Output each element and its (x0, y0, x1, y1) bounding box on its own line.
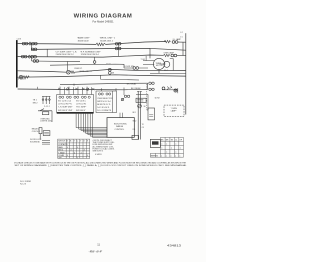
svg-text:T. BAKE: T. BAKE (58, 151, 65, 154)
interlock switch S2 (138, 104, 142, 108)
svg-text:BR. RELAY: BR. RELAY (127, 82, 137, 85)
stub wire with plug P9 (124, 67, 133, 69)
svg-text:SWITCH: SWITCH (58, 141, 65, 143)
svg-text:x: x (175, 152, 176, 154)
junction tick on row G left (36, 87, 38, 89)
oven lamp dashed box (164, 105, 184, 116)
svg-text:x: x (171, 148, 172, 150)
plug pair K3 feed (123, 88, 125, 96)
svg-text:4: 4 (67, 147, 68, 149)
svg-text:SURF. IND. LT.: SURF. IND. LT. (80, 71, 93, 73)
junction diamond row A (28, 42, 31, 45)
svg-text:VOLTAGE CHECKS TO BE MADE WITH: VOLTAGE CHECKS TO BE MADE WITH CONTROLS … (14, 161, 187, 164)
vertical riser x118 (118, 44, 120, 57)
svg-text:L1 B: L1 B (17, 38, 22, 40)
svg-text:BK 1: BK 1 (133, 112, 137, 114)
svg-text:B: B (70, 141, 72, 143)
svg-text:N.O 1-2 N.C 3-4: N.O 1-2 N.C 3-4 (58, 100, 71, 102)
svg-text:30: 30 (144, 106, 146, 108)
grid cell marks (151, 140, 183, 158)
timer bottom stem (158, 70, 160, 74)
notes text block right of control (93, 140, 115, 156)
svg-text:SEE NOTE 3: SEE NOTE 3 (93, 151, 104, 153)
svg-text:3000W 240V.: 3000W 240V. (78, 40, 90, 42)
svg-text:8" 2400W: 8" 2400W (18, 79, 26, 81)
element R5 zigzag right row2 (163, 54, 169, 56)
svg-text:x: x (161, 144, 162, 146)
SW1 text row2 (58, 100, 87, 111)
svg-text:1250W 240V. SW 3-4: 1250W 240V. SW 3-4 (81, 54, 99, 56)
timer escapement link (170, 59, 173, 71)
svg-text:CONTROL: CONTROL (115, 129, 126, 131)
svg-text:O: O (83, 141, 85, 143)
svg-text:TD 8: TD 8 (106, 63, 110, 65)
svg-text:4: 4 (74, 152, 75, 154)
timer stem top (149, 48, 151, 58)
svg-text:x: x (166, 155, 167, 157)
latch riser (177, 88, 179, 93)
svg-text:OV: OV (142, 127, 145, 129)
svg-text:MOTOR: MOTOR (156, 65, 163, 67)
plug P10 right row1 (172, 41, 175, 44)
svg-text:-R8 -8-F: -R8 -8-F (89, 249, 103, 253)
svg-text:2 4 1 C: 2 4 1 C (44, 106, 51, 108)
surface element R2 zigzag row F (23, 76, 29, 78)
svg-text:SOLENOID: SOLENOID (30, 142, 40, 144)
switch function chart table (58, 139, 90, 158)
pilot lamp DS1 left on row F (19, 75, 23, 79)
relay contacts K2 (149, 88, 151, 90)
oven door label box (150, 139, 160, 147)
feeder wire labels (133, 112, 145, 131)
svg-text:RANGE: RANGE (116, 125, 124, 128)
wire row E (18, 71, 67, 72)
plug P3 on row A mid (115, 43, 118, 46)
svg-text:6 34813: 6 34813 (95, 154, 102, 156)
vertical wire C to D (31, 57, 33, 61)
svg-text:x: x (175, 144, 176, 146)
svg-text:L1 H1 L2 H2 P N: L1 H1 L2 H2 P N (58, 103, 72, 105)
svg-text:S: S (87, 141, 89, 143)
svg-text:R 6: R 6 (133, 129, 136, 131)
svg-text:DOOR SW.: DOOR SW. (125, 66, 135, 68)
wire stub y79 (101, 75, 140, 80)
svg-text:CL: CL (175, 140, 177, 142)
svg-text:60 HZ: 60 HZ (155, 98, 161, 100)
svg-text:4: 4 (84, 150, 85, 152)
svg-text:T: T (74, 141, 75, 143)
right border wire (185, 33, 187, 114)
power bus bar L1 (16, 40, 18, 87)
svg-text:x: x (175, 155, 176, 157)
svg-text:WIRING DIAGRAM: WIRING DIAGRAM (74, 14, 133, 20)
svg-text:SW 240V 6": SW 240V 6" (76, 110, 86, 112)
component X1 left-bottom switch (38, 109, 52, 111)
vertical feeders to oven table (137, 92, 142, 140)
vertical riser x94.6 (94, 57, 96, 61)
svg-text:BROIL: BROIL (58, 150, 63, 152)
relay contacts K1 (149, 82, 151, 84)
wires into lamp box (147, 109, 148, 111)
svg-text:1 0: 1 0 (180, 36, 182, 38)
wire row A (top supply line) (18, 43, 96, 46)
connector marks right of T1 (42, 141, 50, 144)
plug P4 on row B (31, 48, 34, 51)
svg-text:SWITCH 1-2 3-4: SWITCH 1-2 3-4 (97, 101, 110, 103)
svg-text:68: 68 (112, 73, 114, 75)
row B extension to border (150, 48, 186, 50)
SW2 text rows (97, 98, 113, 112)
svg-text:x: x (166, 152, 167, 154)
svg-text:LAMP": LAMP" (171, 110, 177, 113)
SW1 contact pairs row1 (59, 96, 90, 98)
element R3 zigzag mid row E (70, 71, 75, 74)
svg-text:x: x (161, 155, 162, 157)
svg-text:CONTACTS: CONTACTS (58, 143, 68, 146)
wire row B (31, 48, 150, 49)
wire row X right (150, 72, 186, 74)
svg-text:434813: 434813 (167, 243, 181, 247)
svg-text:N.C. B: N.C. B (20, 183, 27, 185)
pilot lamp DS2 mid (66, 70, 70, 74)
bus contact symbols on row G (58, 88, 94, 91)
dashed link timer (146, 84, 148, 110)
wire row G right stub (124, 88, 148, 90)
svg-text:4: 4 (71, 150, 72, 152)
svg-text:REFRIG: REFRIG (151, 155, 159, 157)
wire row H relay feed (60, 83, 148, 85)
wire row F (18, 75, 186, 77)
wire row D2 (50, 64, 124, 68)
svg-text:LIGHTS 115V: LIGHTS 115V (40, 120, 52, 122)
electronic range control U1 (107, 118, 134, 138)
surface switch bank SW1 box (57, 95, 94, 113)
plug P7 row C (31, 55, 34, 58)
wire row D (32, 60, 81, 63)
latch plunger symbol (174, 89, 177, 92)
junction tick on row H (73, 84, 75, 86)
svg-text:"R.R. SURF": "R.R. SURF" (76, 107, 87, 109)
lamp contacts vertical pair (108, 68, 111, 71)
SW2 top stubs (102, 88, 117, 112)
svg-text:OVEN SELECTOR: OVEN SELECTOR (97, 98, 113, 100)
plug P1 on row A (22, 42, 25, 45)
svg-text:ELECTRONIC: ELECTRONIC (114, 123, 127, 125)
svg-text:BK BR TB CL TL: BK BR TB CL TL (97, 104, 110, 106)
plug P2 on row A (32, 42, 35, 45)
svg-text:DOOR LOCK: DOOR LOCK (30, 139, 42, 141)
broil element R4 zigzag right row1 (164, 40, 170, 42)
latch arrow contacts (167, 86, 172, 90)
svg-text:2100W 240V. SW 1-2: 2100W 240V. SW 1-2 (56, 54, 74, 56)
vertical riser x147.7 (147, 83, 149, 89)
oven switch chart grid (150, 137, 183, 157)
door latch switch S5 (162, 87, 165, 90)
svg-text:4: 4 (87, 155, 88, 157)
door switch box S3 (136, 98, 146, 102)
vertical wire A to B (30, 44, 32, 50)
svg-text:B: B (67, 141, 69, 143)
svg-text:3600W 240V. 2: 3600W 240V. 2 (100, 40, 113, 42)
door latch wire (162, 89, 178, 91)
svg-text:L2: L2 (181, 32, 184, 34)
svg-text:60c 1: 60c 1 (164, 70, 168, 72)
timer entry wires (143, 56, 166, 65)
selector switch ticks on bus (60, 87, 92, 95)
wire row C (18, 55, 164, 57)
svg-text:TE 1: TE 1 (33, 100, 38, 102)
svg-text:SW 240V 8" UNIT: SW 240V 8" UNIT (58, 110, 73, 112)
svg-text:x: x (161, 148, 162, 150)
svg-text:4: 4 (67, 155, 68, 157)
svg-text:x: x (179, 155, 180, 157)
plug P6 row C (21, 55, 24, 58)
svg-text:4: 4 (77, 147, 78, 149)
svg-text:OFF: OFF (58, 157, 61, 159)
oven selector switch SW2 box (96, 91, 117, 113)
svg-text:OVEN LT.: OVEN LT. (74, 68, 83, 70)
vertical wire D to E cluster (67, 62, 69, 71)
SW1 bottom edge (57, 112, 94, 114)
plug P5 on row B mid (115, 47, 118, 50)
svg-text:11: 11 (97, 243, 100, 247)
plug P8 on row D (33, 60, 36, 63)
svg-text:C: C (77, 141, 79, 143)
svg-text:SW 2: SW 2 (33, 103, 39, 105)
plug pair P12 (124, 95, 126, 97)
svg-text:FL. LAMP: FL. LAMP (173, 38, 182, 41)
vertical wire B to C (46, 49, 48, 56)
vertical wire x183 (182, 42, 184, 55)
svg-text:5-6 7-8 9-10 11: 5-6 7-8 9-10 11 (97, 107, 109, 109)
svg-text:TO: TO (142, 124, 145, 126)
svg-text:T1 M: T1 M (141, 59, 146, 61)
SW2 contact pairs (98, 93, 110, 95)
svg-text:"BAKE UNIT": "BAKE UNIT" (77, 37, 90, 40)
timer motor M1 outer (153, 58, 164, 69)
plug S4 on riser (93, 61, 96, 64)
svg-text:"L.R. SURF UNIT": "L.R. SURF UNIT" (58, 107, 73, 109)
svg-text:x: x (166, 144, 167, 146)
plug P11 right row2 (171, 54, 174, 57)
wire above feeders (136, 94, 148, 110)
svg-text:x: x (180, 148, 181, 150)
timer motor M1 inner dial (164, 61, 170, 67)
svg-text:T: T (80, 141, 81, 143)
svg-text:4: 4 (77, 157, 78, 159)
thermal fuse box (148, 108, 155, 120)
svg-text:For Model 249051: For Model 249051 (92, 20, 114, 24)
junction diamond row C (28, 55, 31, 58)
svg-text:x: x (171, 155, 172, 157)
svg-text:"BROIL UNIT" 1: "BROIL UNIT" 1 (100, 38, 116, 40)
svg-text:N.O. CONTACTS: N.O. CONTACTS (97, 109, 112, 112)
svg-text:SET OF WIRING DIAGRAMS. [_] DE: SET OF WIRING DIAGRAMS. [_] DENOTES TIME… (15, 164, 187, 167)
thermostat switch symbols (42, 96, 50, 104)
bake element R1 zigzag (96, 43, 106, 46)
extra contact near P12 (121, 98, 123, 100)
svg-text:4: 4 (81, 152, 82, 154)
wire bundle from SW1 (76, 114, 107, 138)
wire row G selector bus (18, 88, 124, 91)
control terminal tab (132, 135, 139, 139)
svg-text:L1 H1 L2 H2: L1 H1 L2 H2 (76, 103, 86, 105)
chart header text (58, 141, 89, 160)
wire pair into control top (120, 113, 122, 118)
svg-text:N.O 5-6 N.C: N.O 5-6 N.C (76, 100, 87, 102)
